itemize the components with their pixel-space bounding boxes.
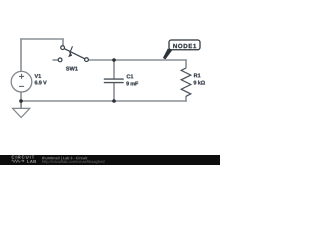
label R1 designator xyxy=(194,74,201,78)
label R1 value 9 kOhm xyxy=(194,81,205,85)
wire top rail from V1 to switch xyxy=(20,38,63,40)
ground xyxy=(13,101,30,118)
footer title text xyxy=(42,157,87,161)
resistor R1 xyxy=(181,68,191,96)
footer url text xyxy=(42,160,105,164)
voltage source V1 xyxy=(11,71,32,92)
label C1 value 9 mF xyxy=(126,82,138,86)
label SW1 designator xyxy=(66,67,78,71)
capacitor C1 xyxy=(104,79,124,83)
wire switch unused throw stub xyxy=(53,59,59,61)
footer bar xyxy=(0,155,220,165)
node junction dot at C1 top xyxy=(112,58,116,62)
label V1 designator xyxy=(35,74,42,78)
node junction dot at C1 bottom xyxy=(112,99,116,103)
switch SW1 xyxy=(58,46,88,62)
wire V1 top lead xyxy=(20,38,22,71)
wire C1 top lead xyxy=(113,60,115,79)
wire C1 bottom lead xyxy=(113,83,115,101)
label C1 designator xyxy=(127,74,134,78)
wire V1 bottom lead xyxy=(20,92,22,109)
footer CircuitLab logo xyxy=(12,156,36,163)
node NODE1 flag xyxy=(163,40,200,59)
label V1 value 6.9 V xyxy=(35,81,47,85)
wire R1 top lead xyxy=(185,59,187,68)
wire switch top lead xyxy=(62,38,64,46)
wire bottom rail xyxy=(20,100,186,102)
wire R1 bottom lead xyxy=(185,96,187,102)
wire middle rail from switch to R1 xyxy=(88,59,187,61)
node junction dot V1-ground on bottom rail xyxy=(19,99,23,103)
